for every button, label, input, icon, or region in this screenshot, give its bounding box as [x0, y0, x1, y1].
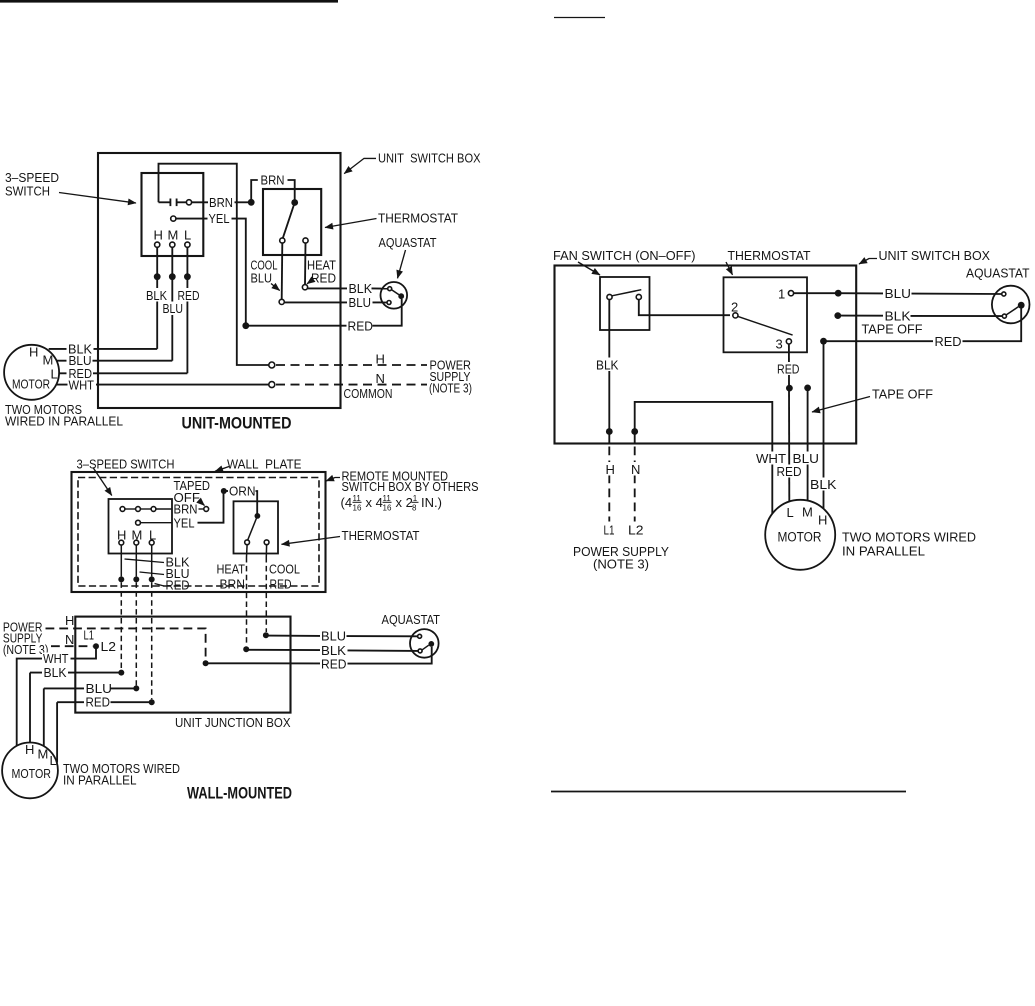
svg-text:IN PARALLEL: IN PARALLEL [842, 544, 925, 559]
wire L dashed to junction box [149, 545, 155, 699]
svg-text:COMMON: COMMON [344, 386, 393, 401]
svg-text:RED: RED [777, 464, 802, 479]
label BLU at motor M1 [67, 353, 93, 368]
svg-text:WHT: WHT [43, 651, 69, 666]
unit switch box (enclosure) [98, 153, 341, 408]
svg-text:L2: L2 [628, 523, 644, 538]
svg-text:RED: RED [348, 318, 374, 333]
svg-text:RED: RED [311, 271, 336, 286]
switch terminals H M L [154, 228, 192, 248]
svg-text:ORN: ORN [229, 484, 256, 499]
svg-text:H: H [29, 345, 38, 360]
junction dot BRN [248, 199, 255, 206]
label AQUASTAT (right) [966, 266, 1030, 281]
svg-text:UNIT SWITCH BOX: UNIT SWITCH BOX [879, 248, 991, 263]
thermostat T2 contacts [245, 513, 269, 545]
label COOL BLU with arrow [251, 258, 280, 291]
wire N power dashed [276, 371, 427, 401]
svg-text:H: H [154, 228, 163, 243]
wire WHT from L2 to motor [17, 646, 96, 746]
svg-text:WALL-MOUNTED: WALL-MOUNTED [187, 785, 292, 803]
label POWER SUPPLY (NOTE 3) [429, 358, 472, 396]
thermostat T2 box [234, 501, 279, 553]
wire BLK to motor H [809, 341, 839, 509]
svg-text:MOTOR: MOTOR [778, 530, 822, 545]
svg-text:1: 1 [778, 286, 785, 301]
svg-text:RED: RED [178, 288, 200, 303]
svg-text:L1: L1 [604, 523, 615, 538]
svg-text:UNIT SWITCH BOX: UNIT SWITCH BOX [378, 151, 481, 166]
label POWER SUPPLY (NOTE 3) left [3, 620, 49, 658]
label TWO MOTORS WIRED IN PARALLEL (wall) [63, 761, 180, 788]
svg-text:MOTOR: MOTOR [12, 767, 52, 781]
fan switch contacts [607, 290, 642, 300]
wire H (BLK) to motor [49, 247, 170, 349]
wire RED junction to aquastat [206, 647, 432, 672]
svg-text:COOL: COOL [269, 562, 300, 577]
svg-text:H: H [376, 352, 385, 367]
svg-text:BLU: BLU [793, 451, 820, 466]
label TAPE OFF (lower) with arrow [812, 387, 933, 413]
wire BRN jumper to thermostat (label BRN above) [251, 173, 295, 203]
svg-text:SWITCH: SWITCH [5, 184, 50, 199]
svg-text:TAPE OFF: TAPE OFF [872, 387, 933, 402]
label HEAT RED with arrow [307, 258, 336, 286]
svg-text:HEAT: HEAT [217, 562, 246, 577]
svg-text:N: N [376, 371, 385, 386]
svg-text:AQUASTAT: AQUASTAT [379, 235, 437, 250]
wire H power dashed [276, 352, 427, 367]
wire BLK to motor [30, 665, 124, 743]
wire BLK junction to aquastat [243, 643, 418, 658]
thermostat T3 pin 1 [778, 286, 794, 301]
svg-text:H: H [818, 513, 827, 528]
wire cool pole down [279, 243, 284, 304]
svg-text:L: L [184, 228, 191, 243]
svg-text:RED: RED [86, 695, 111, 710]
thermostat T3 pin 2 with arm [731, 299, 793, 335]
remote switch box (dashed) [78, 478, 319, 587]
label REMOTE MOUNTED SWITCH BOX BY OTHERS [326, 469, 479, 513]
svg-text:N: N [631, 462, 640, 477]
svg-text:YEL: YEL [209, 211, 230, 226]
label THERMOSTAT (wall) [282, 528, 420, 544]
svg-text:L1: L1 [84, 628, 95, 643]
svg-text:H: H [65, 613, 74, 628]
motor M1 [4, 345, 59, 400]
svg-text:L2: L2 [101, 639, 117, 654]
svg-text:RED: RED [270, 577, 292, 592]
svg-text:BLU: BLU [86, 681, 113, 696]
wire H power dashed to RED junction [46, 613, 209, 667]
svg-text:M: M [43, 353, 54, 368]
switch S2 terminals H M L [117, 528, 156, 545]
label UNIT JUNCTION BOX [175, 715, 291, 730]
title UNIT-MOUNTED [182, 415, 292, 433]
wire RED to motor [57, 695, 155, 763]
wall plate box [72, 472, 326, 592]
svg-text:(4: (4 [341, 495, 353, 510]
thermostat T3 pin 3 [776, 336, 792, 351]
wire fan switch to thermostat 2 [639, 300, 730, 316]
svg-text:RED: RED [935, 334, 962, 349]
3-speed switch S2 box [109, 499, 173, 554]
aquastat A2 [410, 629, 439, 658]
label WALL PLATE [215, 457, 302, 472]
svg-text:1: 1 [413, 494, 418, 503]
svg-text:RED: RED [777, 362, 800, 377]
svg-text:MOTOR: MOTOR [12, 378, 50, 392]
svg-text:AQUASTAT: AQUASTAT [966, 266, 1030, 281]
wire M dashed to junction box [133, 545, 139, 685]
wire BLK fan switch to L1 [595, 300, 628, 538]
wire BRN from switch to junction [192, 195, 249, 210]
wire RED to aquastat [246, 299, 402, 333]
label UNIT SWITCH BOX [344, 151, 481, 174]
power supply terminals [269, 362, 275, 388]
svg-text:UNIT-MOUNTED: UNIT-MOUNTED [182, 415, 292, 433]
title WALL-MOUNTED [187, 785, 292, 803]
wire ORN to thermostat [227, 484, 258, 514]
svg-text:BRN: BRN [261, 173, 285, 188]
svg-text:L: L [51, 367, 58, 382]
junction dot RED [242, 322, 249, 329]
svg-text:BLU: BLU [349, 295, 372, 310]
page top rule [0, 0, 338, 3]
label THERMOSTAT [325, 211, 458, 228]
switch S2 contacts row with BRN taped off [120, 502, 209, 517]
svg-text:BLU: BLU [163, 301, 184, 316]
labels BLK BLU RED with leaders [125, 555, 190, 593]
junction dot ORN [221, 488, 227, 494]
svg-text:IN PARALLEL: IN PARALLEL [63, 773, 137, 788]
svg-text:16: 16 [353, 504, 362, 513]
svg-text:11: 11 [383, 494, 392, 503]
svg-text:x 2: x 2 [396, 495, 413, 510]
wire BLU junction to aquastat [263, 629, 418, 644]
bottom rule [551, 791, 906, 793]
svg-text:BRN: BRN [220, 577, 246, 592]
svg-text:L: L [787, 505, 794, 520]
svg-text:BLK: BLK [349, 281, 373, 296]
svg-text:RED: RED [166, 578, 190, 593]
svg-text:BLU: BLU [885, 286, 912, 301]
svg-text:2: 2 [731, 299, 738, 314]
wire L (RED) to motor [59, 247, 201, 373]
svg-text:(NOTE 3): (NOTE 3) [429, 381, 472, 396]
svg-text:THERMOSTAT: THERMOSTAT [728, 248, 811, 263]
wire BLU to motor [44, 681, 140, 747]
3-speed switch S1 box [142, 173, 204, 256]
svg-text:11: 11 [353, 494, 362, 503]
svg-text:TWO MOTORS WIRED: TWO MOTORS WIRED [842, 530, 976, 545]
svg-text:RED: RED [69, 366, 93, 381]
svg-text:H: H [606, 462, 615, 477]
wire H dashed to junction box [118, 545, 124, 669]
svg-text:(NOTE 3): (NOTE 3) [593, 557, 649, 572]
wire cool RED dashed down [265, 545, 267, 632]
label THERMOSTAT (right) [726, 248, 811, 275]
wire BLU to aquastat [284, 295, 386, 310]
svg-text:OFF: OFF [174, 490, 201, 505]
wire RED pin3 to motor L [775, 344, 804, 502]
svg-text:3–SPEED SWITCH: 3–SPEED SWITCH [77, 457, 175, 472]
thermostat T3 box [724, 277, 808, 352]
aquastat A3 [992, 286, 1030, 324]
wire BLU taped off to motor M [791, 385, 821, 501]
svg-text:THERMOSTAT: THERMOSTAT [342, 528, 420, 543]
label AQUASTAT [379, 235, 437, 278]
label WHT [755, 451, 787, 466]
svg-text:(NOTE 3): (NOTE 3) [3, 642, 49, 657]
label FAN SWITCH (ON-OFF) [553, 248, 696, 275]
label POWER SUPPLY (NOTE 3) (right) [573, 544, 669, 572]
svg-text:x 4: x 4 [366, 495, 383, 510]
label 3-SPEED SWITCH (wall) [77, 457, 175, 496]
wire BLK taped off to aquastat [834, 308, 1002, 323]
label UNIT SWITCH BOX (right) [859, 248, 990, 264]
svg-text:BLU: BLU [321, 629, 346, 644]
thermostat T1 box [263, 189, 321, 255]
switch contact (bars) with terminal [159, 199, 192, 207]
svg-text:AQUASTAT: AQUASTAT [382, 612, 441, 627]
svg-text:WALL PLATE: WALL PLATE [227, 457, 302, 472]
label 3-SPEED SWITCH [5, 170, 136, 203]
page top short rule [554, 17, 605, 19]
wire: switch feed from H supply (up over switch box) [159, 164, 269, 365]
wire YEL to ORN junction [136, 491, 224, 530]
svg-text:BLK: BLK [596, 357, 619, 372]
motor M2 [2, 742, 58, 798]
wire heat BRN dashed down [246, 545, 249, 646]
wire RED to aquastat [820, 308, 1021, 349]
label AQUASTAT (wall) [382, 612, 441, 627]
svg-text:N: N [65, 632, 74, 647]
wire BLK to aquastat [308, 281, 388, 296]
label TAPE OFF (upper) [862, 321, 923, 336]
svg-text:M: M [802, 505, 813, 520]
label TAPED OFF with arrow [174, 478, 211, 506]
svg-text:YEL: YEL [174, 515, 195, 530]
svg-text:THERMOSTAT: THERMOSTAT [378, 211, 458, 226]
labels HEAT BRN / COOL RED [217, 562, 301, 592]
wire heat pole down [302, 243, 307, 290]
svg-text:L: L [50, 753, 57, 768]
svg-text:SWITCH BOX BY OTHERS: SWITCH BOX BY OTHERS [342, 479, 479, 494]
svg-text:M: M [38, 747, 49, 762]
svg-text:WIRED IN PARALLEL: WIRED IN PARALLEL [5, 414, 123, 429]
svg-text:UNIT JUNCTION BOX: UNIT JUNCTION BOX [175, 715, 291, 730]
wire WHT motor to N [56, 378, 269, 393]
label TWO MOTORS WIRED IN PARALLEL (right) [842, 530, 976, 559]
wire BLU pin1 to aquastat [794, 286, 1002, 301]
label L1 [84, 628, 95, 643]
svg-text:H: H [25, 742, 34, 757]
label TWO MOTORS WIRED IN PARALLEL [5, 402, 123, 429]
wire M (BLU) to motor [57, 247, 186, 360]
svg-text:16: 16 [383, 504, 392, 513]
svg-text:TAPE OFF: TAPE OFF [862, 321, 923, 336]
svg-text:8: 8 [412, 504, 417, 513]
unit junction box [75, 617, 290, 713]
label BLK at motor M1 [67, 341, 94, 356]
label RED at motor M1 [67, 366, 94, 381]
unit switch box (right enclosure) [555, 266, 857, 444]
svg-text:RED: RED [321, 656, 347, 671]
svg-text:BLK: BLK [44, 665, 67, 680]
wire N power dashed to L2 [51, 632, 116, 654]
svg-text:IN.): IN.) [421, 495, 442, 510]
svg-text:FAN SWITCH (ON–OFF): FAN SWITCH (ON–OFF) [553, 248, 696, 263]
wire YEL from switch [171, 211, 246, 322]
thermostat T1 contacts: common dot and two poles [280, 199, 308, 243]
svg-text:BLK: BLK [810, 477, 837, 492]
motor M3 [765, 500, 835, 570]
svg-text:BLU: BLU [251, 271, 273, 286]
svg-text:BRN: BRN [209, 195, 233, 210]
aquastat A1 [381, 282, 408, 309]
svg-text:M: M [168, 228, 179, 243]
wire WHT to N/L2 [628, 402, 773, 538]
fan switch box [600, 277, 650, 330]
svg-text:3: 3 [776, 336, 783, 351]
